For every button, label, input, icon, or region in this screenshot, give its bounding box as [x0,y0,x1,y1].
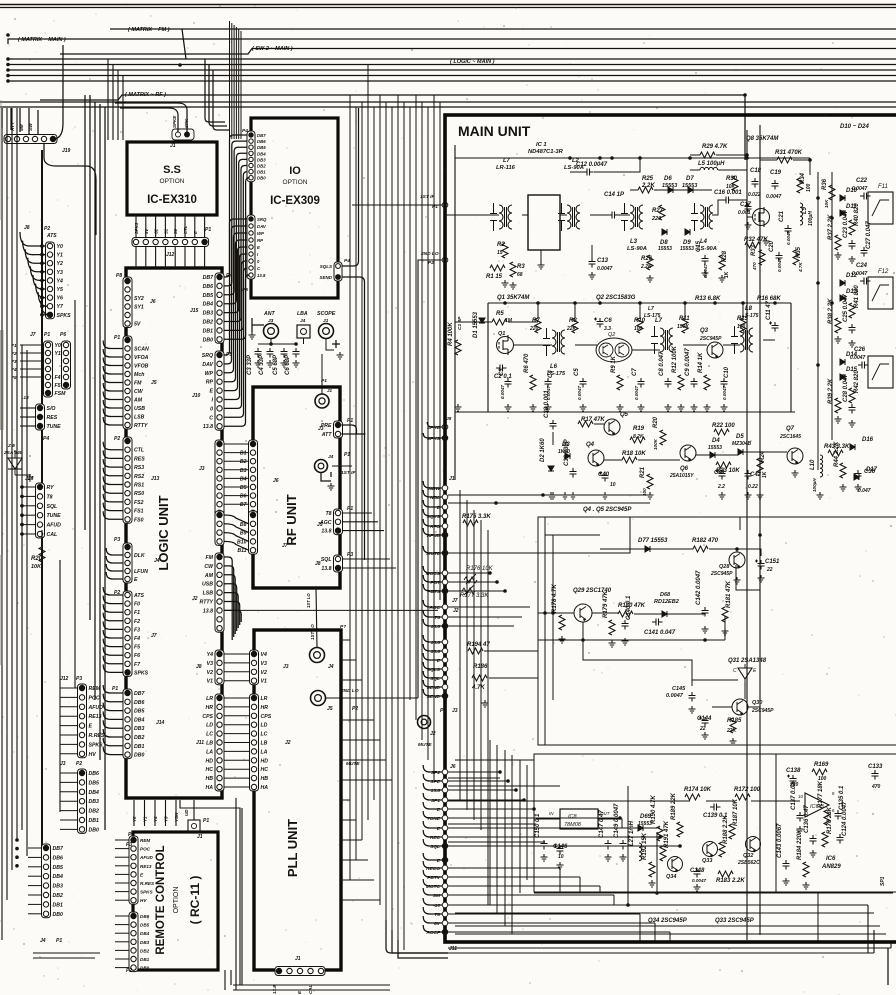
svg-text:C21: C21 [779,210,785,222]
resistor R3 [510,262,525,277]
wire [559,868,561,893]
connector J13 [123,437,145,523]
svg-text:LS-90A: LS-90A [627,246,647,252]
wire [42,279,46,281]
svg-text:CAL: CAL [47,532,58,538]
connector J1 SS [172,129,194,140]
connector J10 [202,351,224,430]
junction [20,523,24,527]
wire [224,610,241,622]
ground [792,470,799,477]
svg-text:B6: B6 [240,494,247,500]
svg-text:R29 4.7K: R29 4.7K [702,144,728,150]
pin NBL [430,494,448,501]
wire [42,314,46,316]
svg-text:DB4: DB4 [134,717,144,723]
wire [599,886,601,893]
wire [873,930,875,953]
resistor R1 [486,265,505,280]
wire [690,169,700,171]
wire [60,725,78,727]
svg-text:MUTE: MUTE [426,551,440,557]
junction [20,485,24,489]
pin SQL [430,843,448,850]
pin TONE [427,815,448,822]
capacitor C25 [843,294,856,334]
svg-text:DB1: DB1 [134,744,144,750]
svg-text:15553: 15553 [680,246,694,252]
wire [20,360,44,362]
ground [734,577,741,584]
svg-text:0: 0 [210,406,213,412]
junction [522,798,526,802]
ground [783,878,790,885]
svg-text:J7: J7 [151,633,157,639]
wire [44,144,96,235]
wire [321,354,323,394]
svg-text:DB5: DB5 [257,145,266,150]
wire [341,639,350,641]
svg-text:220: 220 [529,326,539,332]
svg-text:R169: R169 [814,762,829,768]
wire [20,376,44,378]
wire [439,102,441,600]
wire [270,339,272,344]
connector J1 PLL [275,967,325,976]
svg-text:D16: D16 [862,437,874,443]
svg-text:J7: J7 [282,543,288,549]
wire [135,247,137,269]
wire [145,215,147,238]
wire [103,511,123,519]
scan edge artifact [0,100,4,665]
wire [224,541,249,550]
wire [341,859,368,861]
svg-text:DB4: DB4 [53,874,63,880]
wire [258,343,296,345]
svg-text:C145: C145 [672,686,686,692]
svg-text:J14: J14 [156,720,165,726]
capacitor C143 [777,823,790,870]
wire [455,759,534,761]
wire [448,616,522,618]
svg-text:J1: J1 [197,834,203,840]
svg-text:C136 0.47: C136 0.47 [804,805,810,833]
ground [719,492,726,499]
diode D9 [683,229,691,246]
svg-text:0.0047: 0.0047 [692,878,706,883]
svg-text:Y4: Y4 [153,816,158,822]
svg-text:CAL: CAL [308,985,313,994]
wire [696,454,710,456]
svg-text:FM: FM [134,381,142,387]
svg-text:J4: J4 [154,558,160,564]
svg-text:SPKS: SPKS [57,313,72,319]
ground [293,360,300,367]
svg-text:10K: 10K [31,564,42,570]
svg-text:HR: HR [261,705,269,711]
svg-text:REM: REM [140,838,150,843]
wire [103,450,123,458]
svg-text:RP: RP [257,238,263,243]
junction [816,281,820,285]
svg-text:220: 220 [651,216,661,222]
junction [40,313,44,317]
svg-text:AGC: AGC [428,605,440,611]
wire [466,500,468,810]
svg-text:0.0047: 0.0047 [500,385,505,399]
resistor R31 [775,150,803,163]
ground [548,492,555,499]
junction [618,816,622,820]
ground [649,880,656,887]
wire 13.8 [224,609,438,611]
svg-text:SPKS: SPKS [140,890,153,895]
svg-text:R28: R28 [722,250,728,262]
svg-text:IN: IN [549,811,554,816]
wire [84,95,86,530]
wire [423,566,442,573]
junction [20,495,24,499]
wire [103,720,123,728]
svg-text:AM: AM [204,573,214,579]
svg-text:B2: B2 [240,459,247,465]
bus wire [8,75,896,77]
svg-text:LBA: LBA [297,311,308,317]
wire [448,789,516,791]
svg-text:78M08: 78M08 [564,822,582,828]
wire [36,284,46,298]
svg-text:R20: R20 [653,416,659,428]
svg-text:HR: HR [206,705,214,711]
svg-text:Q33: Q33 [702,858,712,864]
resistor R26 [641,255,653,270]
junction [40,261,44,265]
svg-text:Q1: Q1 [498,331,505,337]
svg-text:13.8: 13.8 [431,624,441,630]
svg-text:10: 10 [610,482,616,488]
wire [103,409,123,417]
svg-text:Q2: Q2 [608,332,615,338]
wire [103,503,123,511]
connector J14 [36,483,62,538]
svg-text:C22: C22 [856,178,868,184]
junction [40,279,44,283]
wire [639,914,641,941]
svg-text:LSB: LSB [134,415,145,421]
svg-text:J3: J3 [283,664,289,670]
svg-text:YSN: YSN [174,812,179,822]
svg-text:P1: P1 [128,832,134,838]
resistor R10 [634,318,646,333]
wire [342,425,366,434]
wire IO-DB bus [224,178,249,340]
section box AGC [538,517,896,745]
pin E [437,657,448,664]
wire [2,108,38,134]
svg-text:HB: HB [261,776,269,782]
wire [423,490,442,497]
connector J12 [78,684,105,758]
ground [617,404,624,411]
wire [638,459,680,461]
svg-text:*2: *2 [12,351,17,357]
wire [423,509,442,516]
resistor R25 [638,176,654,193]
resistor R184 [797,829,809,877]
connector J7 [123,591,149,676]
wire [744,682,746,699]
wire [342,521,378,523]
svg-text:V4: V4 [261,652,267,658]
resistor R34 [797,172,806,193]
svg-text:R194 47: R194 47 [467,642,490,648]
svg-text:10: 10 [798,794,804,799]
connector J8 [46,242,72,319]
svg-text:DB6: DB6 [140,914,150,919]
wire [448,823,536,825]
capacitor C135 [835,785,846,820]
svg-text:DB7: DB7 [203,275,214,281]
resistor R18 [622,451,646,463]
wire [11,108,13,870]
svg-text:1ST IF: 1ST IF [420,194,435,200]
wire [448,777,500,779]
resistor R38 [828,298,841,333]
connector J5 [123,336,149,429]
wire [630,189,638,191]
junction [503,301,507,305]
wire [15,474,30,475]
ground [267,360,274,367]
svg-text:R3: R3 [517,264,525,270]
svg-text:DAV: DAV [257,224,267,229]
pin SPKE [427,424,448,431]
wire [42,305,46,307]
wire [224,768,250,770]
wire [60,753,78,755]
diode D7 [686,176,694,193]
wire [224,970,226,990]
wire [60,706,78,708]
svg-text:D2 1K60: D2 1K60 [540,438,546,462]
svg-text:J11: J11 [196,740,204,746]
block LOGIC UNIT [126,268,222,798]
diode D1 [473,311,485,338]
wire [115,848,129,850]
wire [224,724,250,726]
svg-text:Q30: Q30 [752,700,762,706]
junction [626,903,630,907]
wire [423,821,442,828]
svg-text:J4: J4 [300,318,306,324]
wire [28,885,42,887]
connector J1 P1 [315,394,329,408]
wire [448,947,891,949]
wire [715,454,738,456]
svg-text:R39 2.2K: R39 2.2K [828,378,834,404]
wire [23,241,46,255]
wire [656,832,658,893]
resistor R32 [744,237,768,248]
svg-text:F11: F11 [878,184,888,190]
wire [737,549,761,556]
svg-text:Q33 2SC945P: Q33 2SC945P [715,918,755,924]
svg-text:UD: UD [184,809,189,816]
wire [480,520,482,830]
svg-text:D4: D4 [712,438,720,444]
svg-text:13.8: 13.8 [257,273,266,278]
svg-text:C3 33P: C3 33P [247,354,253,375]
connector J3b [215,511,224,545]
transistor Q28 [729,552,745,569]
svg-text:P1: P1 [344,452,350,458]
wire [133,800,135,826]
IC IC8 78M08 [549,809,611,829]
resistor R12 [672,345,684,390]
svg-text:DB6: DB6 [257,139,266,144]
svg-text:R172 100: R172 100 [734,787,761,793]
wire [598,819,622,828]
resistor R9 [611,355,623,390]
wire [739,517,741,530]
wire [233,989,390,991]
svg-text:Q8 35K74M: Q8 35K74M [746,136,779,142]
junction [638,826,642,830]
svg-text:REM: REM [89,686,101,692]
ground [609,640,616,647]
wire [693,189,712,191]
svg-text:S.S: S.S [163,164,181,176]
connector J2 [200,553,224,632]
svg-text:SY1: SY1 [134,305,144,311]
wire [1,108,3,940]
wire [103,366,123,374]
svg-text:C: C [209,415,213,421]
diode D17 [854,467,878,480]
svg-text:*3: *3 [12,359,17,365]
wire [115,941,129,943]
wire [712,200,722,215]
capacitor C27 [861,221,873,257]
wire [122,76,124,141]
wire [552,535,554,700]
svg-text:R21: R21 [640,466,646,478]
svg-text:J2: J2 [430,731,436,737]
svg-text:Q3: Q3 [700,328,709,334]
svg-text:SQYS: SQYS [427,514,441,520]
wire [341,899,380,901]
wire [487,303,489,412]
wire [423,481,442,488]
svg-text:J15: J15 [190,308,199,314]
svg-text:R18 10K: R18 10K [622,451,646,457]
svg-text:J3: J3 [199,466,205,472]
svg-text:C150 0.1: C150 0.1 [535,813,541,838]
wire [341,719,374,721]
svg-text:FM: FM [206,555,214,561]
wire [240,31,242,139]
wire [423,811,442,818]
svg-text:Y0: Y0 [132,816,137,822]
svg-text:DB2: DB2 [53,893,63,899]
junction [532,807,536,811]
svg-text:SEND: SEND [427,685,441,691]
wire [321,472,331,481]
ground [502,280,509,287]
capacitor C24 [856,263,871,285]
svg-text:DB0: DB0 [134,753,144,759]
wire [28,258,46,272]
svg-text:DB6: DB6 [53,855,63,861]
svg-text:J2: J2 [285,740,291,746]
svg-text:SCAN: SCAN [134,347,149,353]
svg-text:P2: P2 [352,706,358,712]
ground [638,404,645,411]
wire [103,341,123,349]
capacitor C142 [696,570,709,617]
svg-text:VFOA: VFOA [134,355,149,361]
wire [433,95,435,780]
svg-text:.13: .13 [22,395,29,401]
wire [103,392,123,400]
svg-text:F1: F1 [134,610,140,616]
svg-text:Q6: Q6 [680,466,689,472]
connector J6 RF [240,440,258,517]
wire [20,505,36,507]
svg-text:J5: J5 [327,706,333,712]
svg-text:MUTE: MUTE [346,761,360,767]
wire [224,584,237,631]
wire [423,662,442,669]
svg-text:13.8: 13.8 [203,608,213,614]
wire [103,375,123,383]
junction [703,638,707,642]
wire [117,70,119,140]
pin E [437,857,448,864]
pin SEND [427,693,448,700]
svg-text:C19: C19 [770,170,782,176]
svg-text:RP: RP [206,380,214,386]
wire [423,861,442,868]
svg-text:C13: C13 [597,258,609,264]
svg-text:0.022: 0.022 [748,192,761,198]
wire [504,750,506,926]
junction [40,270,44,274]
wire [759,125,761,935]
diode D68 [662,611,667,617]
svg-text:AGCF: AGCF [425,930,441,936]
diode D8 [660,229,668,246]
resistor R6 [524,353,536,390]
svg-text:J4: J4 [328,664,334,670]
wire [20,495,36,497]
junction [40,287,44,291]
wire [746,130,748,940]
svg-text:J2: J2 [453,608,459,614]
IF transformer L8 [731,306,753,354]
svg-text:E: E [257,245,260,250]
resistor R192 [642,832,655,877]
pin 13.8 [431,623,448,630]
pin AGCF [425,929,447,936]
svg-text:AN829: AN829 [821,864,841,870]
wire [60,791,78,793]
wire [60,800,78,802]
wire [115,873,129,875]
capacitor C17 [740,202,752,213]
svg-text:RS3: RS3 [134,465,144,471]
